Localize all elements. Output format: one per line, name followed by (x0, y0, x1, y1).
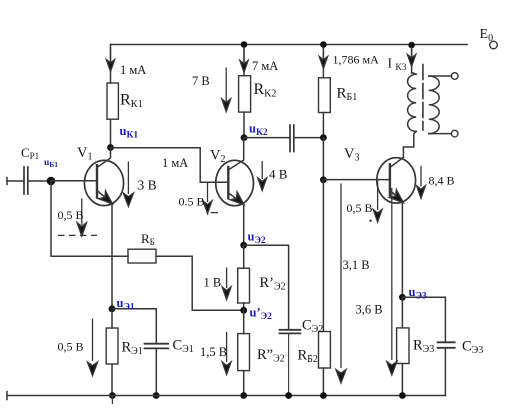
resistor R_B1 (319, 78, 331, 113)
wire RE1 to rail (111, 364, 113, 396)
wire CE1 to rail (155, 348, 157, 395)
node cap-RB1 junction (320, 134, 327, 141)
node uK1 junction (107, 144, 114, 151)
wire RB1 branch from rail (322, 45, 324, 78)
svg-text:RБ1: RБ1 (337, 86, 358, 104)
svg-text:8,4 В: 8,4 В (429, 174, 455, 188)
svg-text:V3: V3 (344, 146, 359, 164)
resistor R_K2 (239, 76, 251, 112)
arrow 0.5V RE1 (87, 319, 97, 376)
svg-text:4 В: 4 В (269, 167, 288, 182)
arrow 8.4V (417, 166, 426, 199)
svg-text:uК1: uК1 (120, 124, 139, 141)
svg-text:1 мА: 1 мА (120, 63, 146, 77)
svg-text:RБ: RБ (141, 231, 155, 247)
capacitor C_E2 (280, 330, 301, 334)
svg-text:R”Э2: R”Э2 (257, 347, 285, 365)
node uK2 junction (241, 134, 248, 141)
capacitor coupling C2 (290, 125, 294, 152)
transistor V1 (84, 148, 123, 208)
wire RB1 to cap node (322, 113, 324, 138)
node uE1 junction (109, 305, 116, 312)
arrow 3V (123, 162, 133, 207)
svg-text:RК2: RК2 (254, 81, 277, 100)
svg-text:1 мА: 1 мА (162, 156, 188, 170)
wire RB2 to rail (322, 368, 324, 396)
wire transformer branch from rail (411, 45, 413, 73)
node RE3 rail junction (399, 392, 406, 399)
svg-text:RК1: RК1 (120, 92, 143, 111)
inductor transformer secondary (429, 76, 452, 134)
wire down to base node (322, 138, 324, 180)
resistor R'_E2 (238, 268, 250, 303)
arrow 4V (258, 161, 267, 191)
wire uE2 to CE2 (244, 245, 289, 329)
wire cap to uB1 (28, 180, 51, 182)
arrow 1mA current (106, 47, 114, 72)
arrow 0.5V V1 base (77, 199, 86, 237)
svg-text:E0: E0 (480, 27, 494, 44)
wire RK1 branch from rail (110, 45, 112, 84)
svg-text:uЭ3: uЭ3 (409, 285, 427, 302)
svg-text:uБ1: uБ1 (44, 158, 58, 169)
dash under V2 arrow (211, 212, 218, 214)
resistor R''_E2 (238, 334, 250, 371)
wire input lead tick (6, 178, 8, 185)
svg-text:uЭ1: uЭ1 (117, 296, 135, 313)
node RB2 rail junction (320, 392, 327, 399)
svg-text:1,5 В: 1,5 В (200, 345, 227, 359)
svg-text:RЭ3: RЭ3 (413, 338, 434, 356)
node transformer rail junction (408, 42, 415, 49)
wire top supply rail (111, 44, 468, 46)
node u'E2 junction (240, 307, 247, 314)
svg-text:R’Э2: R’Э2 (260, 275, 286, 293)
arrow 0.5V V2 base (203, 182, 212, 213)
svg-text:1 В: 1 В (204, 276, 222, 290)
wire uE2 to R'E2 (243, 245, 245, 268)
wire RB to u'E2 (156, 256, 244, 310)
transformer core (422, 65, 424, 131)
wire uE1 to CE1 (112, 309, 156, 344)
capacitor C_E1 (145, 344, 169, 349)
wire V1 emitter down (111, 204, 113, 309)
svg-text:V2: V2 (210, 148, 225, 166)
node V3 base junction (320, 176, 327, 183)
arrow 0.5V V3 base (373, 180, 382, 223)
svg-text:3,1 В: 3,1 В (343, 258, 370, 272)
dashed level line under V1 (58, 234, 97, 236)
svg-text:3,6 В: 3,6 В (356, 303, 383, 317)
svg-text:CР1: CР1 (21, 145, 39, 161)
svg-text:CЭ3: CЭ3 (462, 339, 483, 357)
svg-text:7 мА: 7 мА (252, 59, 278, 73)
wire uE3 to CE3 (402, 297, 445, 342)
node secondary terminal top (451, 73, 458, 80)
svg-text:0.5 В: 0.5 В (179, 195, 205, 209)
wire base node to V3 (323, 179, 390, 181)
wire input lead (7, 180, 24, 182)
resistor R_B2 (319, 332, 331, 369)
arrow IK3 current (407, 47, 415, 67)
transistor V2 (216, 138, 254, 209)
svg-text:7 В: 7 В (192, 74, 210, 88)
wire uB1 to V1 base (51, 180, 97, 182)
node uE3 junction (399, 294, 406, 301)
wire uK1 to V2 base (111, 148, 229, 183)
svg-text:1,786 мА: 1,786 мА (333, 53, 380, 67)
svg-text:RЭ1: RЭ1 (122, 340, 143, 358)
arrow 3.1V (336, 184, 346, 384)
wire rail left end tick (6, 392, 8, 400)
dot under V3 arrow (369, 220, 371, 222)
wire R'E2 to u'E2 (243, 303, 245, 310)
svg-text:uЭ2: uЭ2 (248, 230, 266, 247)
inductor transformer primary (403, 73, 416, 158)
svg-text:u’Э2: u’Э2 (250, 306, 273, 323)
wire uB1 down to RB (51, 181, 128, 256)
wire RK1 to uK1 node (110, 119, 112, 147)
node RB1 rail junction (320, 41, 327, 48)
svg-text:3 В: 3 В (138, 178, 157, 193)
svg-text:0,5 В: 0,5 В (58, 340, 84, 354)
node R''E2 rail junction (240, 392, 247, 399)
node RE1 rail junction (109, 392, 116, 399)
svg-text:V1: V1 (77, 145, 92, 163)
svg-text:CЭ1: CЭ1 (173, 338, 194, 356)
wire cap to RB1 node (294, 137, 324, 139)
node uB1 junction (47, 177, 56, 186)
svg-text:uК2: uК2 (249, 122, 268, 139)
arrow 1V (222, 268, 231, 300)
transistor V3 (377, 157, 416, 206)
svg-text:0,5 В: 0,5 В (347, 201, 373, 215)
wire RK2 to uK2 (243, 112, 245, 138)
resistor R_E3 (397, 328, 409, 364)
svg-text:RБ2: RБ2 (298, 348, 318, 366)
wire uE1 to RE1 (111, 309, 113, 328)
node RK2 rail junction (241, 41, 248, 48)
resistor R_E1 (106, 328, 118, 364)
wire u'E2 to R''E2 (243, 310, 245, 333)
resistor R_K1 (107, 83, 118, 119)
wire RK2 branch from rail (243, 45, 245, 76)
svg-text:CЭ2: CЭ2 (302, 318, 323, 336)
svg-text:0,5 В: 0,5 В (58, 208, 84, 222)
node E0 terminal (490, 41, 498, 49)
arrow 7V (222, 68, 231, 112)
capacitor C_E3 (438, 342, 455, 348)
arrow 3.6V (387, 188, 397, 375)
wire V3 emitter down (401, 203, 403, 298)
wire uE3 to RE3 (401, 297, 403, 328)
arrow 7mA current (240, 47, 248, 72)
node CE1 rail junction (153, 392, 160, 399)
wire RE3 to rail (401, 364, 403, 396)
resistor R_B (128, 249, 156, 263)
wire uK2 to coupling cap (244, 137, 290, 139)
arrow 1.5V (222, 332, 231, 375)
wire CE2 to rail (288, 333, 290, 395)
node CE2 rail junction (285, 392, 292, 399)
wire R''E2 to rail (243, 371, 245, 396)
wire divider down to RB2 (322, 180, 324, 332)
wire V2 emitter down (243, 205, 245, 245)
arrow 1.786mA current (319, 47, 327, 69)
wire CE3 to rail (444, 348, 446, 396)
capacitor C_P1 (24, 167, 28, 194)
node uE2 junction (240, 242, 247, 249)
wire bottom ground rail (7, 395, 445, 397)
wire stub below rail (111, 396, 113, 404)
svg-text:I К3: I К3 (388, 56, 407, 74)
node secondary terminal bottom (451, 130, 458, 137)
